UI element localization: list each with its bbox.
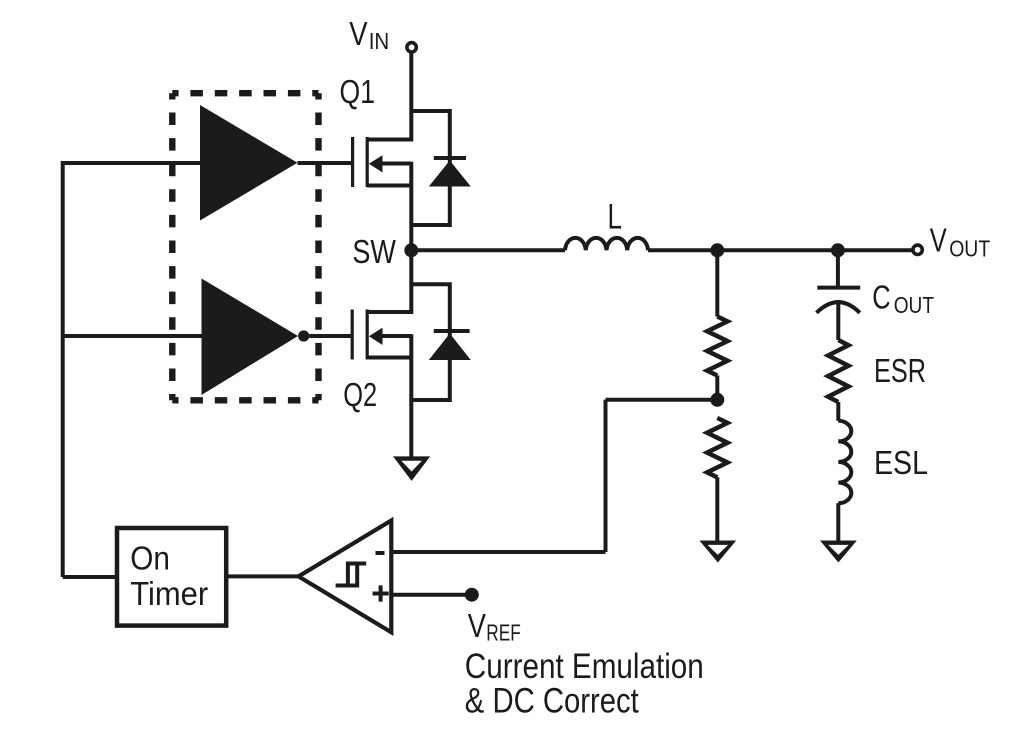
wire buffer A2 output to Q2 gate bbox=[309, 334, 352, 338]
label ESL bbox=[874, 444, 928, 481]
transistor Q1 gate bar bbox=[351, 137, 354, 187]
wire comparator plus to VREF bbox=[393, 593, 471, 597]
inverter bubble A2 bbox=[298, 330, 309, 341]
diode D2 branch wire bbox=[411, 284, 450, 400]
svg-text:V: V bbox=[468, 607, 486, 644]
wire COUT to ESR bbox=[836, 302, 840, 340]
transistor Q2 source lead bbox=[367, 356, 411, 360]
svg-text:On: On bbox=[130, 539, 170, 576]
transistor Q1 drain lead bbox=[367, 138, 411, 142]
text Current Emulation bbox=[465, 647, 704, 686]
wire COUT top bbox=[836, 250, 840, 287]
node FB-tap dot bbox=[710, 243, 724, 257]
diode D2 cathode bar bbox=[434, 329, 470, 333]
wire buffer A1 output to Q1 gate bbox=[298, 161, 353, 165]
diode D1 branch wire bbox=[411, 111, 450, 225]
label VOUT bbox=[930, 222, 990, 262]
label COUT bbox=[872, 279, 934, 318]
transistor Q2 channel bar bbox=[366, 310, 369, 360]
wire SW to inductor bbox=[411, 248, 565, 252]
wire FB to comparator minus bbox=[393, 550, 606, 554]
wire inductor to VOUT bbox=[648, 248, 913, 252]
wire ESL to ground bbox=[836, 503, 840, 540]
resistor R2 bbox=[707, 418, 727, 477]
diode D1 cathode bar bbox=[434, 156, 466, 160]
svg-text:Current Emulation: Current Emulation bbox=[465, 647, 704, 686]
label Q1 bbox=[340, 73, 376, 110]
transistor Q1 body lead bbox=[379, 162, 411, 166]
label SW bbox=[352, 233, 396, 270]
capacitor COUT bottom plate bbox=[817, 302, 860, 313]
inductor L bbox=[565, 238, 648, 250]
svg-text:Timer: Timer bbox=[130, 575, 208, 612]
wire Q2 body/source to ground bbox=[409, 334, 413, 457]
label VIN bbox=[349, 15, 389, 54]
wire VIN to Q1 drain bbox=[409, 52, 413, 142]
transistor Q2 drain lead bbox=[367, 310, 411, 314]
wire buffer A1 input bbox=[63, 161, 200, 165]
svg-text:REF: REF bbox=[486, 620, 521, 646]
transistor Q2 gate bar bbox=[351, 310, 354, 360]
svg-text:C: C bbox=[872, 279, 890, 316]
svg-text:OUT: OUT bbox=[894, 292, 934, 318]
driver buffer A2 bbox=[202, 279, 299, 396]
label VREF bbox=[468, 607, 521, 646]
transistor Q2 body lead bbox=[379, 334, 411, 338]
diode D1 triangle bbox=[429, 161, 471, 187]
wire ESR to ESL bbox=[836, 402, 840, 421]
inductor ESL bbox=[838, 421, 851, 503]
svg-text:L: L bbox=[608, 198, 623, 237]
wire FB horizontal bbox=[606, 398, 718, 402]
terminal VREF dot bbox=[465, 588, 479, 602]
wire Q1 body/source to Q2 drain (through SW) bbox=[409, 162, 413, 314]
op-amp U1 comparator bbox=[299, 521, 392, 633]
svg-text:ESR: ESR bbox=[874, 352, 926, 389]
wire On Timer to comparator bbox=[226, 574, 298, 578]
terminal VIN bbox=[407, 43, 416, 52]
ground under ESL bbox=[820, 541, 857, 563]
terminal VOUT bbox=[913, 245, 922, 254]
ground under Q2 bbox=[393, 456, 430, 481]
wire left rail to On Timer bbox=[63, 575, 117, 579]
wire R1 to FB node bbox=[715, 376, 719, 401]
svg-text:V: V bbox=[930, 222, 947, 259]
driver buffer A1 bbox=[200, 105, 298, 221]
label On Timer bbox=[130, 539, 208, 612]
resistor R1 bbox=[707, 317, 727, 376]
label Q2 bbox=[343, 376, 377, 413]
svg-text:V: V bbox=[349, 15, 367, 52]
node COUT dot bbox=[831, 243, 845, 257]
minus sign bbox=[376, 551, 385, 555]
svg-text:Q1: Q1 bbox=[340, 73, 376, 110]
svg-text:OUT: OUT bbox=[949, 236, 990, 262]
plus sign bbox=[373, 585, 389, 601]
svg-text:Q2: Q2 bbox=[343, 376, 377, 413]
capacitor COUT top plate bbox=[817, 286, 860, 290]
wire FB divider top bbox=[715, 250, 719, 316]
svg-text:& DC Correct: & DC Correct bbox=[465, 682, 639, 721]
transistor Q1 channel bar bbox=[366, 137, 369, 187]
wire R2 to ground bbox=[715, 477, 719, 540]
box On Timer bbox=[117, 528, 226, 626]
svg-text:ESL: ESL bbox=[874, 444, 928, 481]
ground under R2 bbox=[699, 541, 736, 563]
node FB dot bbox=[710, 393, 724, 407]
resistor ESR bbox=[828, 340, 848, 402]
transistor Q1 source lead bbox=[367, 184, 411, 188]
wire FB vertical bbox=[604, 400, 608, 552]
svg-text:SW: SW bbox=[352, 233, 396, 270]
transistor Q2 body arrow bbox=[369, 328, 383, 345]
hysteresis glyph bbox=[336, 564, 367, 586]
dashed box driver block bbox=[172, 93, 318, 400]
wire left rail bbox=[61, 161, 65, 577]
label ESR bbox=[874, 352, 926, 389]
text DC Correct bbox=[465, 682, 639, 721]
diode D2 triangle bbox=[429, 334, 471, 361]
svg-text:IN: IN bbox=[369, 28, 390, 54]
wire buffer A2 input bbox=[63, 334, 202, 338]
node SW dot bbox=[404, 243, 418, 257]
transistor Q1 body arrow bbox=[369, 155, 383, 172]
label L bbox=[608, 198, 623, 237]
